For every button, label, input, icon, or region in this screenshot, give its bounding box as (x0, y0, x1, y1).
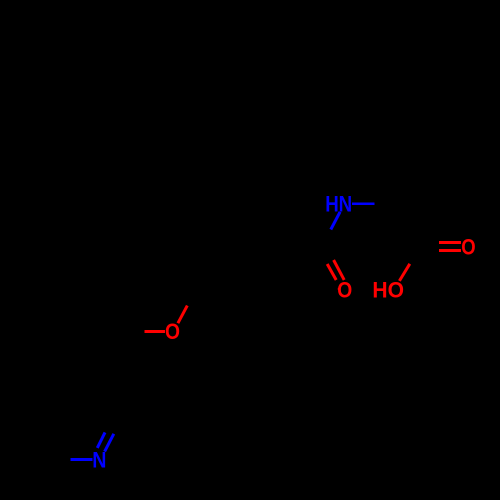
svg-text:HN: HN (325, 191, 352, 216)
double bond N=C (pyridine), nitrogen half, inner line (97, 432, 105, 448)
svg-text:O: O (337, 277, 352, 302)
bond N(amide)-C(carbonyl), nitrogen half (331, 212, 340, 230)
bond stub at left of carbonyl O label (338, 288, 340, 290)
bond N(pyridine)-C2, nitrogen half, single (71, 458, 93, 461)
bond C-O (methoxy ether), oxygen half, left segment (144, 330, 165, 333)
bond N(amide)-C(alpha), nitrogen half (352, 202, 375, 205)
bond O(hydroxyl)-C(carboxyl), oxygen half (399, 264, 409, 281)
svg-text:N: N (92, 448, 106, 473)
double bond C=O (carboxyl), oxygen half, line 1 (439, 241, 461, 244)
double bond C=O (amide carbonyl), oxygen half, line 1 (327, 264, 336, 280)
svg-text:O: O (165, 319, 180, 344)
bond O-C (methoxy ether), oxygen half, up-right segment (178, 306, 187, 324)
double bond C=O (carboxyl), oxygen half, line 2 (439, 249, 461, 252)
svg-text:O: O (461, 234, 475, 259)
double bond N=C (pyridine), nitrogen half, outer line (105, 434, 114, 452)
double bond C=O (amide carbonyl), oxygen half, line 2 (334, 260, 345, 280)
svg-text:HO: HO (372, 278, 404, 303)
